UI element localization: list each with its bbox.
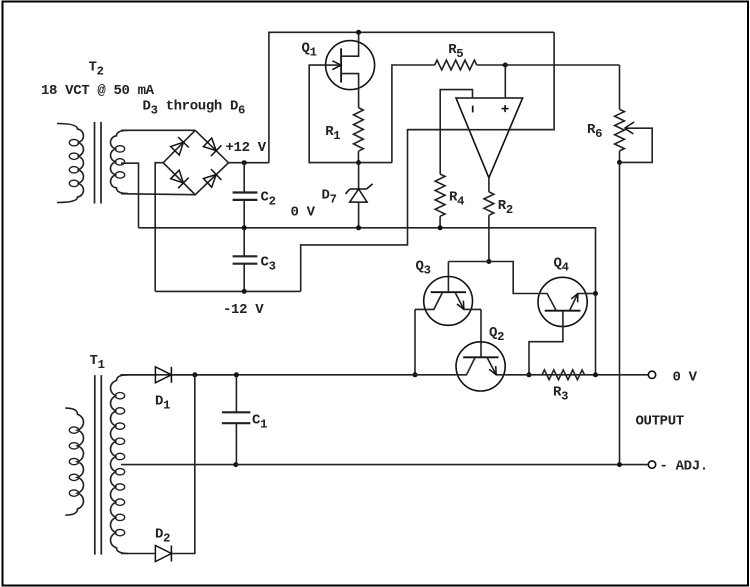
node D1/D2 rail dot — [192, 372, 197, 377]
wire +12V node — [229, 162, 269, 164]
diode D7 triangle — [350, 189, 367, 202]
op-amp minus sign — [472, 106, 474, 113]
wire T1 secondary top lead — [121, 374, 155, 376]
svg-text:+12 V: +12 V — [226, 140, 267, 156]
wire plus input — [504, 65, 506, 98]
wire -12V crossing (through op-amp) — [408, 129, 555, 131]
wire Q4 base — [529, 311, 563, 375]
resistor R6 — [615, 109, 625, 151]
node R1/D7 junction dot — [356, 160, 361, 165]
wire Q1 gate to R1 bottom — [309, 65, 392, 163]
svg-text:OUTPUT: OUTPUT — [636, 414, 684, 430]
potentiometer R6 wiper arrow — [622, 128, 652, 162]
wire T2 secondary top lead — [121, 129, 195, 131]
node Q3 collector rail dot — [413, 372, 418, 377]
node R2 junction dot — [486, 259, 491, 264]
transformer T1 primary winding — [65, 408, 83, 515]
wire 0V rail — [139, 228, 596, 294]
transistor Q3 circle — [424, 277, 473, 326]
wire output 0V rail mid — [505, 374, 648, 376]
transistor Q1 source lead — [341, 74, 359, 108]
transistor Q2 emitter — [487, 358, 505, 375]
wire T2 center tap — [121, 163, 139, 228]
transformer T2 primary winding — [57, 124, 83, 203]
node D7 0V dot — [356, 225, 361, 230]
wire -ADJ rail — [236, 464, 649, 466]
wire Q4 emitter to R3 right — [595, 294, 597, 375]
node R6 bottom dot — [617, 160, 622, 165]
svg-text:- ADJ.: - ADJ. — [660, 459, 708, 475]
wire R6 top lead — [619, 65, 621, 109]
terminal 0V output circle — [648, 371, 655, 378]
capacitor C2 — [243, 163, 245, 192]
terminal -ADJ circle — [648, 461, 655, 468]
wire -12V rail — [155, 290, 301, 292]
wire R5 to plus junction — [477, 64, 506, 66]
transformer T1 secondary winding — [110, 375, 128, 554]
transistor Q4 circle — [538, 277, 587, 326]
diode bridge top-left (D3) — [171, 142, 184, 155]
transistor Q3 emitter — [455, 293, 481, 310]
transistor Q4 emitter arrow — [577, 294, 579, 303]
svg-text:0 V: 0 V — [673, 370, 698, 386]
transistor Q4 collector — [538, 294, 556, 311]
transistor Q2 collector — [456, 358, 475, 375]
transformer T2 core — [94, 122, 96, 204]
transistor Q3 collector — [415, 293, 442, 310]
transistor Q4 emitter — [570, 294, 587, 311]
diode bridge top-right (D4) — [203, 138, 216, 151]
wire R6 to -ADJ rail — [619, 162, 621, 464]
node R4 0V dot — [438, 225, 443, 230]
resistor R1 — [354, 108, 364, 152]
wire minus input feedback — [440, 90, 472, 175]
resistor R5 — [435, 60, 477, 70]
wire T2 secondary bottom lead — [121, 194, 195, 195]
node Q1 drain dot — [356, 30, 361, 35]
wire output 0V rail left — [121, 374, 457, 376]
transistor Q1 gate arrow — [332, 61, 341, 70]
wire T1 secondary bottom lead — [121, 553, 155, 555]
node C2/C3 0V dot — [242, 225, 247, 230]
capacitor C1 — [235, 375, 237, 412]
svg-text:18 VCT @ 50 mA: 18 VCT @ 50 mA — [41, 83, 155, 99]
node Q4 base / R3 dot — [527, 372, 532, 377]
wire bridge minus stub — [155, 163, 163, 292]
transistor Q3 emitter arrow — [457, 304, 464, 309]
wire Q4 emitter to 0V — [587, 293, 596, 295]
wire plus junction to R6 — [505, 64, 619, 66]
transistor Q3 base bar — [431, 291, 466, 293]
node R3 right dot — [593, 372, 598, 377]
wire Q3 collector to output rail — [414, 309, 416, 374]
transistor Q1 channel bar — [340, 48, 342, 82]
wire Q3 base riser — [447, 262, 449, 293]
diode D7 zener bar — [350, 188, 367, 190]
transistor Q1 circle — [326, 41, 375, 90]
wire D1 to rail — [171, 374, 236, 376]
transistor Q1 drain lead — [341, 32, 359, 56]
diode bridge bottom-left (D5) — [171, 170, 184, 183]
wire R2-junction rail — [448, 262, 538, 294]
wire op-amp output — [488, 178, 490, 192]
wire -12V to top rail — [301, 32, 554, 291]
diode D7 lead top — [358, 163, 360, 189]
transistor Q1 gate lead — [326, 64, 342, 66]
transistor Q2 base bar — [463, 356, 498, 358]
transistor Q2 circle — [456, 342, 505, 391]
svg-text:-12 V: -12 V — [223, 302, 264, 318]
resistor R3 — [542, 370, 585, 380]
transformer T1 core — [94, 375, 96, 554]
diode D2 — [155, 546, 171, 562]
capacitor C3 — [243, 228, 245, 256]
svg-text:0 V: 0 V — [291, 205, 316, 221]
node C1 top dot — [234, 372, 239, 377]
diode D7 lead bottom — [358, 202, 360, 228]
node R5/plus dot — [503, 63, 508, 68]
wire R2 bottom — [488, 215, 490, 261]
node R6 -ADJ dot — [617, 462, 622, 467]
resistor R4 — [435, 174, 445, 216]
resistor R2 — [484, 192, 494, 215]
transistor Q4 base bar — [545, 310, 581, 312]
node Q4 emitter dot — [593, 291, 598, 296]
wire Q3 emitter to Q2 base — [480, 309, 482, 357]
wire D2 riser — [171, 375, 194, 554]
diode bridge bottom-right (D6) — [203, 175, 216, 188]
node C1 bottom dot — [233, 462, 238, 467]
wire junction to R5 riser — [392, 65, 435, 163]
node C3 -12V dot — [242, 289, 247, 294]
op-amp U1 triangle — [456, 98, 523, 178]
op-amp plus sign — [502, 108, 509, 110]
transistor Q2 emitter arrow — [489, 369, 496, 374]
transformer T2 secondary winding — [110, 130, 128, 193]
wire +12V riser — [269, 32, 554, 162]
bridge rectifier diamond wires — [163, 130, 228, 194]
node +12V junction dot — [242, 160, 247, 165]
diode D1 — [155, 367, 171, 383]
wire T1 center tap — [121, 464, 235, 466]
